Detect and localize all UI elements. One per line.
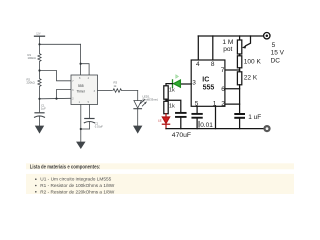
capacitor 0.01 xyxy=(192,114,201,129)
svg-text:R2 - Resistor de 220kOhms a 1/: R2 - Resistor de 220kOhms a 1/8W xyxy=(40,189,115,194)
node B xyxy=(38,98,40,100)
wire pin8 drop xyxy=(80,44,82,75)
label 0.01 xyxy=(198,121,201,128)
resistor 1k lower xyxy=(164,101,168,113)
wire pin7 xyxy=(225,69,240,71)
wire C2 to pin1 node xyxy=(81,128,90,130)
ground under LED1 xyxy=(134,126,142,133)
svg-text:2: 2 xyxy=(221,101,225,108)
wire top rail xyxy=(40,43,81,45)
svg-text:5: 5 xyxy=(272,42,276,49)
terminal ground jack xyxy=(263,125,270,132)
svg-text:1 M: 1 M xyxy=(222,39,233,46)
wire to LED xyxy=(137,91,139,101)
wire pin1 drop xyxy=(215,106,217,128)
svg-text:LE: LE xyxy=(158,119,162,123)
svg-text:IC: IC xyxy=(202,76,209,83)
power VCC 12V symbol xyxy=(35,36,45,44)
wire pin4 drop xyxy=(197,36,199,60)
resistor R1 xyxy=(38,44,41,70)
wire pin8 drop xyxy=(212,36,214,60)
wire bottom rail xyxy=(166,128,263,130)
wiper arrowhead xyxy=(242,45,247,49)
svg-text:470uF: 470uF xyxy=(172,132,191,139)
svg-text:5: 5 xyxy=(195,101,199,108)
wire pin2 xyxy=(225,103,240,105)
right circuit labels xyxy=(158,39,285,139)
wire pin1 drop xyxy=(80,105,82,143)
svg-text:1k: 1k xyxy=(169,88,175,94)
svg-text:U1 - Um circuito integrado LM5: U1 - Um circuito integrado LM555 xyxy=(40,177,111,182)
resistor R3 xyxy=(113,89,138,93)
op IC U1 555 timer box xyxy=(71,75,98,105)
left circuit tiny labels xyxy=(27,32,159,128)
ground under pin1 xyxy=(77,142,85,148)
svg-text:Timer: Timer xyxy=(77,89,86,93)
wire right column xyxy=(239,85,241,113)
resistor 1k upper xyxy=(164,86,168,99)
wire wiper riser xyxy=(246,36,251,46)
svg-text:pot: pot xyxy=(223,46,232,53)
svg-text:7: 7 xyxy=(221,67,225,74)
svg-text:15 V: 15 V xyxy=(271,50,285,57)
svg-text:8: 8 xyxy=(211,61,215,68)
wire pin5 drop xyxy=(88,105,90,118)
IC U2 555 box xyxy=(191,60,225,106)
wire pin4 tie xyxy=(81,64,90,75)
node B2 xyxy=(55,98,57,100)
svg-text:100 K: 100 K xyxy=(244,58,262,65)
wire junction to 470uF branch xyxy=(165,99,167,101)
node A xyxy=(38,69,40,71)
potentiometer 1M pot body xyxy=(237,36,241,54)
resistor 100K xyxy=(237,54,241,68)
capacitor C1 xyxy=(35,99,45,126)
LED green tiny marking xyxy=(176,75,179,78)
capacitor 1uF xyxy=(235,114,244,129)
svg-text:0.01uF: 0.01uF xyxy=(95,124,103,128)
svg-text:1 uF: 1 uF xyxy=(248,114,261,121)
bullet item R2 xyxy=(35,191,37,193)
ground under C1 xyxy=(36,126,44,133)
wire node A to pin7 xyxy=(40,71,72,81)
svg-text:22 K: 22 K xyxy=(244,75,258,82)
svg-text:555: 555 xyxy=(203,84,215,91)
node pin1/C2 xyxy=(80,128,82,130)
title highlight band xyxy=(26,163,294,169)
LED LED1 xyxy=(134,100,146,109)
svg-text:4: 4 xyxy=(196,61,200,68)
junction dots left circuit xyxy=(38,43,82,130)
wire pin3 out xyxy=(98,90,113,92)
resistor 22K xyxy=(237,68,241,85)
svg-text:Red(633nm): Red(633nm) xyxy=(143,98,159,102)
svg-text:3: 3 xyxy=(192,80,196,87)
svg-text:220kΩ: 220kΩ xyxy=(27,81,35,85)
wire LED to left column xyxy=(166,84,173,86)
svg-text:1k: 1k xyxy=(169,104,175,110)
node top xyxy=(38,43,40,45)
wire pin6 tie xyxy=(57,90,72,99)
svg-text:DC: DC xyxy=(271,57,281,64)
svg-text:1uF: 1uF xyxy=(41,107,46,111)
LED red xyxy=(162,114,169,129)
svg-text:555: 555 xyxy=(78,84,84,88)
node pin8 tie xyxy=(80,63,82,65)
svg-text:Lista de materiais e component: Lista de materiais e componentes: xyxy=(30,165,101,171)
bullet item R1 xyxy=(35,185,37,187)
terminal + supply xyxy=(264,33,270,39)
wire pin6 xyxy=(225,88,240,90)
svg-text:1: 1 xyxy=(213,101,217,108)
wire top rail xyxy=(198,35,263,37)
bullet item U1 xyxy=(35,178,37,180)
wire LED to ground xyxy=(137,109,139,126)
wire pin3 xyxy=(181,83,192,85)
wire pin2 stub along bottom xyxy=(224,103,226,105)
LED green xyxy=(173,80,181,87)
svg-text:6: 6 xyxy=(221,86,225,93)
capacitor C2 xyxy=(84,119,94,130)
svg-text:R1 - Resistor de 100kOhms a 1/: R1 - Resistor de 100kOhms a 1/8W xyxy=(40,183,115,188)
wire node B to pin2 xyxy=(40,97,72,100)
capacitor 470uF xyxy=(176,113,186,129)
resistor R2 xyxy=(38,71,41,99)
svg-text:100kΩ: 100kΩ xyxy=(28,56,36,60)
svg-text:12V: 12V xyxy=(36,32,41,35)
wire pin5 drop xyxy=(196,106,198,113)
list highlight band xyxy=(26,174,294,194)
svg-text:0.01: 0.01 xyxy=(200,122,213,129)
